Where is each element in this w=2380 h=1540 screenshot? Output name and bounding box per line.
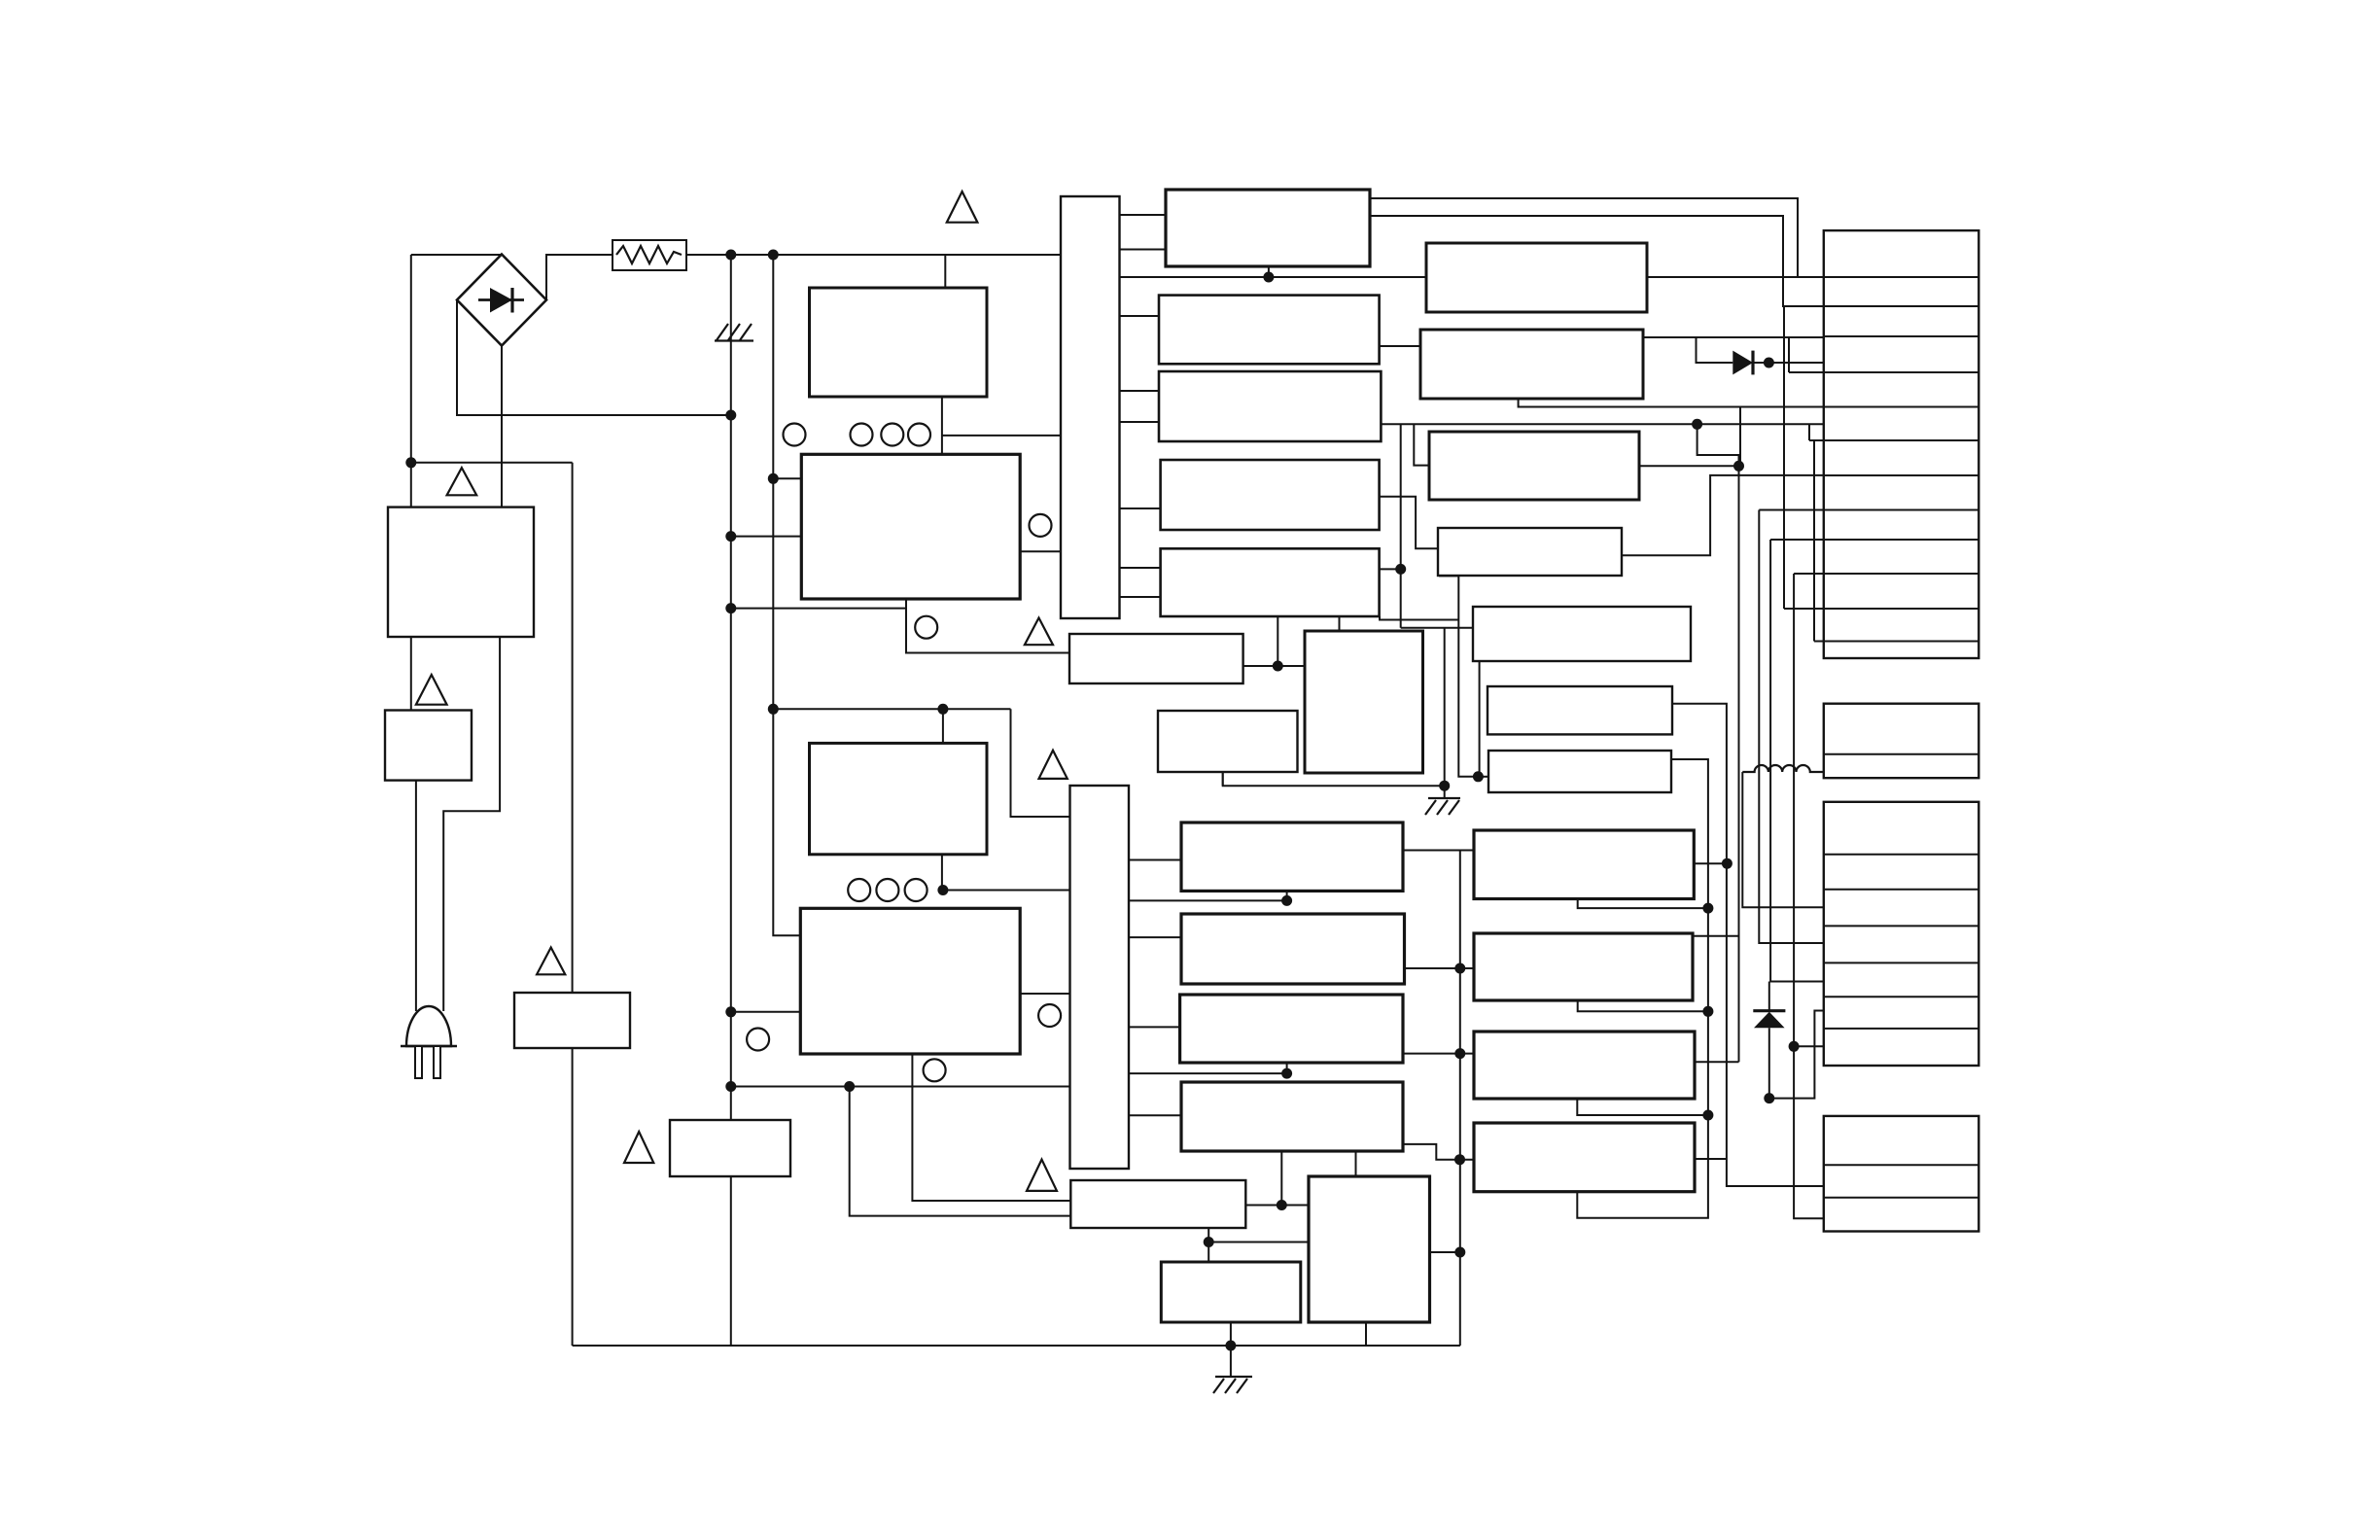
wire P1 bottom drop to S and Q: [1207, 1228, 1209, 1262]
wire T5 corner to bundle: [1380, 616, 1458, 620]
block boxK: [670, 1120, 790, 1176]
wire CN2 net under M1: [1129, 899, 1287, 901]
connector CN1 (tall): [1061, 196, 1120, 618]
wire CN2 net under M3: [1129, 1072, 1287, 1074]
wire N1 right to bundle: [1694, 862, 1727, 864]
block T5: [1161, 548, 1380, 616]
block boxD (regulator IC 2): [800, 908, 1020, 1054]
wire M4 right step to N4: [1403, 1144, 1474, 1160]
block boxC: [810, 743, 988, 854]
wire D2 net to RC3 L-link: [1769, 1011, 1824, 1099]
wire line A from T1 right to column: [1370, 198, 1798, 277]
circle pad cL: [747, 1029, 769, 1051]
wire boxB left pin 2: [773, 477, 801, 479]
wire bundle to R5 left: [1401, 627, 1473, 629]
wire bundle drop serving column cells 590/1076/1253: [1794, 574, 1824, 1218]
block R5: [1473, 607, 1691, 661]
wire CN1 stub to T3 pin2: [1120, 421, 1160, 423]
wire boxC net elbow to CN2: [1011, 709, 1070, 817]
wire AC top bus left to bridge top vertex: [411, 254, 502, 256]
wire riser from R3 net to divider line: [1739, 407, 1741, 467]
block F: [1069, 634, 1243, 683]
warning triangle t4: [624, 1132, 653, 1163]
wire N4 right to bundle: [1695, 1158, 1727, 1160]
wire M4 bottom stub to P1 net: [1280, 1151, 1282, 1206]
wire boxD right pin to CN2: [1020, 993, 1069, 995]
diode D1: [1732, 351, 1753, 375]
wire mid bundle vertical x=1502: [1459, 851, 1461, 1347]
wire T5 right to bundle dot: [1380, 568, 1401, 570]
wire M3 bottom stub: [1286, 1063, 1288, 1073]
wire bundle drop serving column cells 555/1009: [1770, 540, 1824, 982]
resistor R0 body: [612, 240, 686, 270]
connector RC4 pin dividers: [1824, 1165, 1979, 1198]
wire column stub 383 riser: [1788, 337, 1790, 372]
wire bundle drop serving column cells 524/970: [1759, 510, 1824, 944]
connector column RC4 outer: [1824, 1116, 1979, 1232]
wire R6 right drop to RC4: [1672, 704, 1824, 1186]
wire boxB left pin 1: [731, 536, 802, 538]
wire CN2 stub to M1: [1129, 859, 1181, 861]
inductor L1: [1742, 765, 1824, 772]
wire CN1 stub to T1 pin 1: [1120, 214, 1167, 216]
circle pad c3: [881, 424, 903, 446]
wire diode D1 cathode to column: [1753, 362, 1824, 364]
connector RC3 pin dividers: [1824, 855, 1979, 1029]
block R6: [1487, 686, 1672, 734]
warning triangle t3: [537, 948, 565, 975]
wire bridge bottom vertex to box1 top: [501, 346, 503, 507]
circle pad c8: [876, 879, 898, 901]
wire R3 right to bundle: [1639, 465, 1739, 467]
wire Q bottom to ground rail: [1365, 1322, 1367, 1346]
wire T3 net branch to R3 left: [1414, 424, 1429, 465]
wire boxA top stub from bus: [944, 255, 946, 288]
wire column stub 626: [1784, 608, 1824, 610]
wire boxC top net from x=795 vertical: [773, 708, 1010, 710]
wire CN2 stub to M4: [1129, 1114, 1181, 1116]
block box3: [514, 993, 630, 1048]
wire ground G2 lead: [1230, 1346, 1232, 1377]
warning triangle t6: [1025, 618, 1053, 646]
wire bundle elbow to R7 net: [1439, 576, 1478, 776]
wire bridge left vertex down and right to net N1: [457, 300, 731, 416]
block R2: [1420, 330, 1643, 399]
block boxB (regulator IC): [801, 454, 1020, 599]
circle pad c7: [848, 879, 870, 901]
wire R3 net long drop to N3: [1738, 466, 1740, 1062]
wire boxB right to connector CN1: [1020, 550, 1061, 552]
wire drop from net to P1 left pin 2: [850, 1087, 1071, 1216]
circle pad cB: [924, 1059, 946, 1081]
wire diode D2 top lead: [1768, 982, 1770, 1011]
block N4: [1474, 1123, 1695, 1192]
wire CN1 stub to T2: [1120, 315, 1160, 317]
wire M1 bottom stub: [1286, 891, 1288, 900]
bridge rectifier BR1 diamond: [457, 255, 546, 346]
wire T3 right long net to column: [1381, 423, 1823, 425]
wire to R7 left edge: [1478, 776, 1488, 778]
warning triangle t8: [1027, 1160, 1057, 1191]
wire boxC top stub: [942, 709, 944, 743]
circle pad cR: [1038, 1004, 1061, 1027]
wire S bottom to ground rail: [1230, 1322, 1232, 1346]
connector column RC2 outer: [1824, 704, 1979, 779]
block R4: [1438, 528, 1622, 576]
wire RC3 stub 1076: [1794, 1045, 1824, 1047]
block M1: [1181, 822, 1403, 891]
block T4: [1161, 460, 1380, 530]
wire diode D2 bottom lead: [1768, 1028, 1770, 1098]
wire net N2 vertical x=795: [773, 255, 800, 935]
connector RC2 pin divider: [1824, 753, 1979, 755]
wire T5 bottom stub to F-H net: [1277, 616, 1278, 666]
wire boxD left pin from x=752: [731, 1011, 801, 1013]
wire M1 right to N1: [1403, 850, 1474, 852]
block R7: [1488, 751, 1671, 792]
wire T3-net drop link to R3 node: [1697, 424, 1739, 466]
wire column stub 453 riser: [1808, 424, 1810, 440]
block N2: [1474, 933, 1693, 1000]
node dots (junctions): [405, 457, 416, 468]
wire junction A to filter riser: [411, 462, 573, 464]
wire box G bottom to ground G1: [1223, 772, 1445, 786]
block H: [1305, 631, 1423, 773]
wire bottom ground rail: [573, 1345, 1460, 1347]
wire CN2 stub to M3: [1129, 1026, 1180, 1028]
wire column stub 383: [1789, 371, 1824, 373]
wire M4 bottom stub to Q top: [1355, 1151, 1357, 1176]
wire box2 bottom to plug: [415, 781, 417, 1011]
wire bundle drop to column 659: [1813, 440, 1815, 642]
block M2: [1181, 914, 1405, 984]
wire net under boxD to CN2: [731, 1086, 1070, 1088]
wire step vertical at boxB bottom: [906, 599, 1069, 653]
wire R7 right drop to N4 return: [1577, 759, 1708, 1218]
warning triangle t7: [1039, 751, 1067, 779]
wire N1 bottom step: [1578, 899, 1708, 909]
wire column stub 524: [1759, 509, 1824, 511]
wire box1 bottom left pin to box2: [410, 637, 412, 711]
wire CN2 stub to M2: [1129, 936, 1181, 938]
wire box F to box H: [1243, 665, 1305, 667]
wire R2 right to column and diode tap: [1643, 336, 1824, 338]
wire T4 right step to R4: [1380, 497, 1438, 549]
wire column stub 453: [1809, 439, 1824, 441]
wire circles row dot to CN2: [943, 890, 1070, 892]
resistor R0 zigzag element: [616, 246, 682, 263]
wire T5 bottom stub to box H: [1339, 616, 1341, 631]
wire N2 right to bundle: [1693, 935, 1739, 937]
circle pad c6: [915, 616, 937, 639]
block M3: [1180, 995, 1403, 1063]
wire bridge right vertex riser to resistor: [546, 255, 612, 300]
wire bundle long drop to column 626: [1783, 306, 1785, 609]
wire ground G1 lead: [1444, 786, 1446, 798]
wire column stub 659: [1814, 641, 1824, 643]
block N3: [1474, 1032, 1695, 1099]
warning triangle t5: [947, 192, 978, 223]
wire P1 net to Q left: [1208, 1242, 1309, 1243]
block boxA: [810, 288, 988, 397]
wire line B from T1 right to column: [1370, 216, 1824, 306]
wire boxA bottom branch to connector CN1: [942, 435, 1061, 437]
block T3: [1159, 371, 1381, 441]
circle pad c9: [905, 879, 927, 901]
wire Q right to bundle: [1430, 1251, 1460, 1253]
ground G0 (chassis): [715, 324, 753, 341]
wire left AC vertical to junction A: [410, 255, 412, 507]
connector column RC3 outer: [1824, 802, 1979, 1066]
wire diode D1 anode drop: [1697, 337, 1733, 363]
diode D2 (zener, pointing up): [1753, 1009, 1785, 1012]
plug P base: [401, 1045, 457, 1047]
circle pad c4: [908, 424, 930, 446]
block N1: [1474, 830, 1694, 899]
connector column RC1 outer: [1824, 230, 1979, 658]
wire CN1 stub to T5 pin1: [1120, 567, 1161, 569]
wire P1 right to box Q: [1245, 1205, 1309, 1207]
connector RC1 pin dividers: [1824, 277, 1979, 642]
wire N2 bottom step: [1578, 1000, 1708, 1011]
block T2: [1159, 296, 1380, 365]
connector CN2 (tall lower): [1070, 786, 1130, 1169]
wire inductor net drop to RC3: [1742, 772, 1824, 907]
block R1: [1426, 243, 1647, 312]
warning triangle t1: [447, 468, 477, 495]
circle pad c5: [1030, 514, 1052, 537]
circle pad c2: [851, 424, 873, 446]
wire box1 bottom right pin jog to plug: [443, 637, 500, 1011]
wire R5 bottom drop: [1479, 661, 1481, 777]
wire main bus resistor to connector CN1: [686, 254, 1061, 256]
wire step net under boxB to box F: [731, 608, 906, 610]
wire box G bottom stub: [1222, 772, 1224, 786]
block S: [1161, 1262, 1301, 1322]
wire bus2 below T1: [1120, 276, 1799, 278]
wire M2 right to N2: [1405, 967, 1475, 969]
plug P prong 1: [415, 1046, 422, 1078]
wire T2 right to R2: [1380, 345, 1420, 347]
wire CN1 stub to T1 pin 2: [1120, 249, 1167, 251]
wire R4 right riser to column: [1622, 475, 1824, 555]
wire CN1 stub to T5 pin2: [1120, 596, 1161, 598]
wire N3 bottom step: [1577, 1099, 1708, 1115]
wire column stub 590: [1794, 573, 1824, 575]
wire ground G1 riser: [1444, 628, 1446, 786]
wire column stub 555: [1770, 539, 1824, 541]
wire CN1 stub to T3 pin1: [1120, 390, 1160, 392]
bridge BR1 inner diode: [478, 298, 524, 301]
plug P prong 2: [434, 1046, 440, 1078]
wire N3 right to bundle: [1695, 1061, 1739, 1063]
wire boxD bottom drop to P1 left pin 1: [912, 1054, 1070, 1201]
wire line A column stub: [1798, 276, 1824, 278]
wire boxA bottom to boxB top: [941, 397, 943, 454]
warning triangle t2: [416, 675, 447, 705]
block R3: [1429, 432, 1639, 500]
wire R2 bottom jog to column: [1519, 399, 1824, 407]
ground G2 (chassis): [1213, 1377, 1252, 1393]
wire net N1 vertical x=752 bus to bottom: [730, 255, 732, 1346]
wire CN1 stub to T4: [1120, 507, 1161, 509]
block Q: [1309, 1176, 1430, 1322]
wire long vertical through box3 to bottom rail: [572, 463, 574, 1346]
block G: [1158, 711, 1298, 772]
wire M3 right to N3: [1403, 1053, 1474, 1055]
plug P dome: [406, 1006, 451, 1046]
block box2 (fuse unit): [385, 711, 472, 781]
block M4: [1181, 1082, 1403, 1151]
circle pad c1: [784, 424, 806, 446]
wire T1 bottom stub to bus2: [1268, 266, 1270, 277]
wire bundle vertical to ground G1: [1400, 424, 1402, 628]
block box1 (line filter): [388, 507, 534, 637]
wire boxC bottom stub to circles row: [941, 855, 943, 891]
block P1: [1070, 1180, 1245, 1228]
block T1: [1166, 190, 1370, 266]
ground G1 (chassis): [1425, 798, 1460, 815]
